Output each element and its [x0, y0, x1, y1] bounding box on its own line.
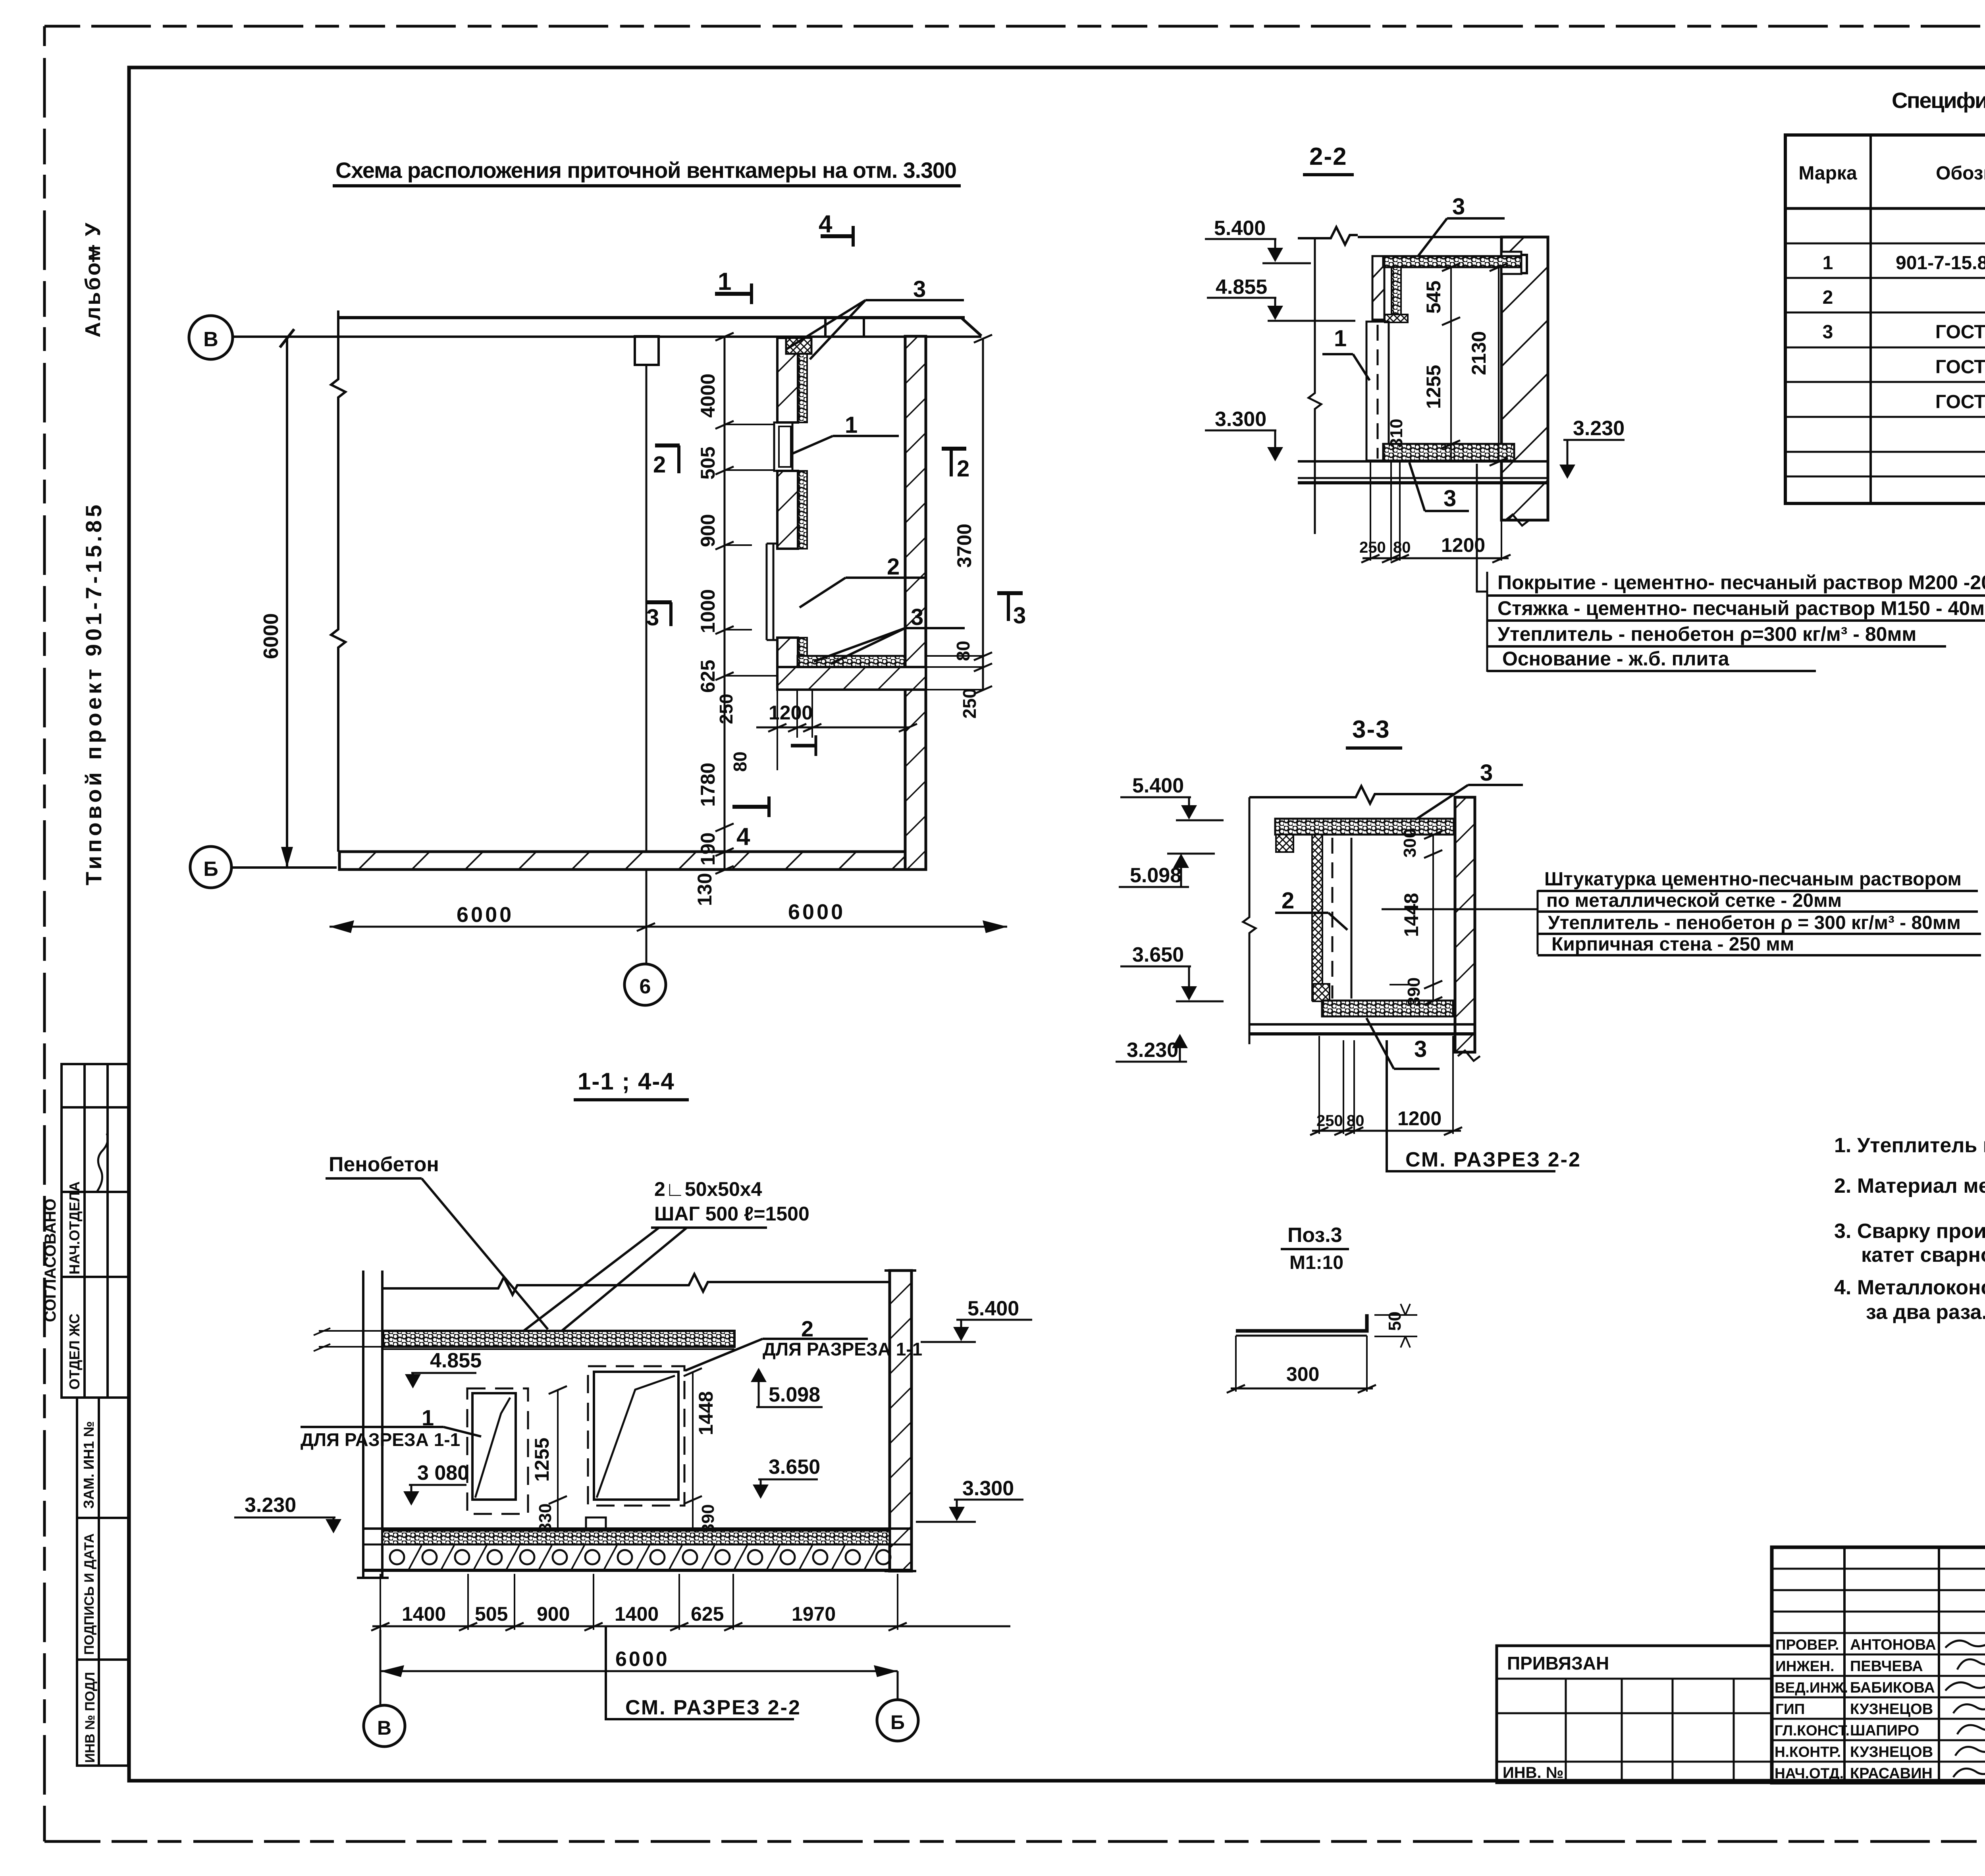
svg-text:3: 3	[1414, 1036, 1427, 1062]
svg-text:505: 505	[697, 447, 719, 480]
svg-text:ГИП: ГИП	[1775, 1701, 1805, 1717]
role labels	[1775, 1637, 1850, 1782]
see section 2-2 reference	[1387, 1040, 1581, 1171]
svg-text:1: 1	[845, 412, 858, 438]
opening 2 door	[588, 1366, 684, 1506]
chamber bottom foam band	[1383, 444, 1514, 461]
bottom 6000+6000 dim	[330, 900, 1007, 933]
rotated signature squiggle	[97, 1134, 108, 1191]
left 6000 dim line	[260, 329, 294, 868]
svg-text:СМ. РАЗРЕЗ 2-2: СМ. РАЗРЕЗ 2-2	[1405, 1148, 1581, 1171]
svg-text:ПЕВЧЕВА: ПЕВЧЕВА	[1850, 1658, 1923, 1675]
svg-text:901-7-15.85 -КЖИ.МН1: 901-7-15.85 -КЖИ.МН1	[1896, 253, 1985, 274]
svg-text:2∟50х50х4: 2∟50х50х4	[654, 1178, 762, 1200]
bottom dims 250/80/1200	[1310, 1036, 1462, 1135]
leader to plaster schedule	[1382, 908, 1538, 910]
section mark 3 right	[997, 593, 1026, 629]
svg-text:310: 310	[1387, 419, 1406, 448]
svg-text:Альбом У: Альбом У	[81, 221, 105, 337]
angle column left	[1372, 256, 1384, 320]
left wall	[357, 1271, 389, 1578]
section mark 4 top	[819, 210, 854, 247]
bottom left angle piece	[1313, 984, 1330, 1001]
dim 1448 / 390	[684, 1368, 718, 1537]
svg-text:СОГЛАСОВАНО: СОГЛАСОВАНО	[42, 1199, 59, 1322]
overbar of V	[93, 245, 94, 262]
svg-text:М1:10: М1:10	[1289, 1252, 1343, 1273]
svg-text:1-1 ; 4-4: 1-1 ; 4-4	[578, 1068, 675, 1095]
svg-text:3-3: 3-3	[1352, 716, 1390, 743]
svg-text:3.300: 3.300	[962, 1477, 1014, 1500]
section mark 1 bottom	[791, 735, 817, 756]
embedded top plate MN1	[786, 338, 811, 354]
svg-text:2: 2	[957, 456, 969, 482]
right wall hatched	[905, 336, 926, 870]
callout 1	[1322, 326, 1370, 380]
svg-text:3: 3	[1480, 760, 1493, 786]
svg-text:250: 250	[959, 688, 980, 719]
svg-text:ШАПИРО: ШАПИРО	[1850, 1722, 1919, 1739]
svg-text:ИНЖЕН.: ИНЖЕН.	[1775, 1658, 1834, 1674]
svg-text:ГОСТ 5336-80: ГОСТ 5336-80	[1935, 357, 1985, 378]
svg-text:ДЛЯ РАЗРЕЗА 1-1: ДЛЯ РАЗРЕЗА 1-1	[301, 1429, 460, 1450]
svg-text:300: 300	[1286, 1363, 1319, 1385]
svg-text:3: 3	[1443, 486, 1456, 511]
level 4.855	[1207, 276, 1355, 321]
row 2 MN2	[1823, 287, 1985, 308]
level 3.230	[1116, 1034, 1188, 1062]
callout 3 bottom	[1366, 1018, 1440, 1069]
bottom dim chain	[371, 1574, 1010, 1631]
callout 3 top	[1418, 194, 1505, 256]
svg-text:2. Материал металлоконструкци: 2. Материал металлоконструкций - сталь В…	[1834, 1174, 1985, 1197]
title underline	[333, 184, 961, 187]
wall cut line left	[331, 310, 345, 852]
svg-text:4: 4	[819, 210, 833, 238]
svg-text:6000: 6000	[260, 613, 283, 659]
svg-text:ГЛ.КОНСТ.: ГЛ.КОНСТ.	[1775, 1722, 1850, 1739]
callout 3 bottom	[1409, 463, 1469, 511]
stub on top wall	[635, 336, 659, 365]
svg-text:1448: 1448	[1400, 893, 1422, 937]
svg-text:Схема расположения приточной в: Схема расположения приточной венткамеры …	[335, 158, 957, 183]
svg-text:Марка: Марка	[1798, 163, 1857, 184]
foam wall pos1 with dashed frame	[1366, 322, 1389, 461]
svg-text:4000: 4000	[697, 374, 719, 418]
vertical dim chain	[694, 333, 777, 906]
section mark 2 left	[653, 445, 680, 478]
level 3.080	[403, 1461, 469, 1506]
floor foam screed band	[382, 1531, 890, 1544]
level 5.400 right	[921, 1297, 1032, 1342]
svg-text:Кирпичная стена - 250 мм: Кирпичная стена - 250 мм	[1551, 934, 1794, 955]
chamber top foam band	[1383, 256, 1521, 267]
right dim line 3700/80/250	[926, 335, 992, 719]
level 5.400	[1120, 774, 1224, 820]
svg-text:КУЗНЕЦОВ: КУЗНЕЦОВ	[1850, 1744, 1933, 1760]
svg-text:1448: 1448	[695, 1391, 717, 1435]
dim 6000	[380, 1648, 898, 1677]
see section 2-2 reference	[606, 1626, 801, 1719]
svg-text:Поз.3: Поз.3	[1287, 1224, 1342, 1247]
callout 2	[1275, 888, 1347, 930]
svg-text:ОТДЕЛ ЖС: ОТДЕЛ ЖС	[66, 1313, 83, 1390]
grid circle V	[189, 316, 233, 359]
svg-text:1255: 1255	[1422, 365, 1445, 409]
svg-text:1: 1	[718, 268, 731, 295]
small box on floor	[586, 1517, 606, 1529]
svg-text:ПРОВЕР.: ПРОВЕР.	[1775, 1637, 1839, 1653]
dim 1255 / 330	[531, 1386, 567, 1537]
chamber bottom dims 250/80/1200	[716, 690, 917, 772]
table outer box	[1785, 135, 1985, 503]
header row line	[1785, 207, 1985, 210]
callout 3 top	[786, 276, 964, 359]
svg-text:80: 80	[953, 641, 973, 661]
svg-text:ГОСТ 5781-82: ГОСТ 5781-82	[1935, 322, 1985, 343]
top wall band	[338, 318, 981, 337]
svg-text:ИНВ. №: ИНВ. №	[1503, 1764, 1563, 1782]
svg-text:1: 1	[1334, 326, 1347, 351]
svg-text:Обозначение: Обозначение	[1936, 163, 1985, 184]
svg-text:ЗАМ. ИН1 №: ЗАМ. ИН1 №	[81, 1421, 97, 1509]
callout 2 with text	[685, 1316, 922, 1371]
svg-text:катет сварного шва - 4: катет сварного шва - 4мм.	[1861, 1244, 1985, 1267]
svg-text:2: 2	[653, 452, 666, 478]
svg-text:БАБИКОВА: БАБИКОВА	[1850, 1679, 1935, 1696]
pos2 frame in lower opening	[767, 544, 777, 640]
svg-text:3: 3	[646, 605, 659, 630]
dim 300	[1227, 1336, 1376, 1393]
svg-text:ПРИВЯЗАН: ПРИВЯЗАН	[1507, 1653, 1609, 1674]
callout 1	[793, 412, 899, 453]
svg-text:Н.КОНТР.: Н.КОНТР.	[1775, 1744, 1841, 1760]
grid circle B	[190, 846, 231, 888]
wall band below chamber	[777, 667, 926, 690]
left cut line with break	[1243, 797, 1256, 1044]
section mark 2 right	[942, 449, 969, 482]
svg-text:5.098: 5.098	[769, 1383, 820, 1406]
callout 2	[800, 554, 925, 607]
top foam band	[314, 1328, 734, 1351]
svg-text:3: 3	[1823, 322, 1833, 343]
box upper	[62, 1064, 128, 1398]
level 3.230 left	[234, 1494, 341, 1533]
svg-text:2130: 2130	[1468, 331, 1490, 375]
svg-text:НАЧ.ОТДЕЛА: НАЧ.ОТДЕЛА	[66, 1181, 83, 1274]
stamp name rows	[1772, 1654, 1985, 1762]
left attached table	[1497, 1646, 1772, 1783]
header texts	[1798, 161, 1985, 184]
svg-text:КУЗНЕЦОВ: КУЗНЕЦОВ	[1850, 1701, 1933, 1718]
svg-text:В: В	[377, 1717, 391, 1739]
svg-text:1400: 1400	[402, 1603, 446, 1625]
ceiling line with breaks	[382, 1274, 890, 1295]
axis line 6 vertical	[646, 366, 648, 964]
svg-text:6000: 6000	[457, 903, 514, 927]
svg-text:Покрытие - цементно- песчаный: Покрытие - цементно- песчаный раствор М2…	[1497, 571, 1985, 594]
level 3.300 right	[916, 1477, 1023, 1522]
svg-text:3700: 3700	[953, 524, 975, 568]
svg-text:Основание - ж.б. плита: Основание - ж.б. плита	[1502, 648, 1730, 670]
grid circle 6	[624, 964, 666, 1005]
stamp outer box	[1772, 1547, 1985, 1783]
svg-text:250: 250	[1359, 539, 1386, 556]
svg-text:ДЛЯ РАЗРЕЗА 1-1: ДЛЯ РАЗРЕЗА 1-1	[763, 1339, 922, 1359]
right wall hatched	[1455, 797, 1480, 1061]
svg-text:ВЕД.ИНЖ.: ВЕД.ИНЖ.	[1775, 1679, 1848, 1696]
svg-text:3.230: 3.230	[245, 1494, 296, 1517]
right wall hatched	[1501, 237, 1548, 526]
svg-text:Утеплитель - пенобетон ρ=300 к: Утеплитель - пенобетон ρ=300 кг/м³ - 80м…	[1497, 623, 1916, 645]
svg-text:1: 1	[1823, 253, 1833, 274]
svg-text:ГОСТ 8509-72: ГОСТ 8509-72	[1935, 391, 1985, 413]
bottom dims 250/80/1200	[1359, 461, 1511, 563]
plaster schedule text block	[1538, 869, 1981, 955]
svg-text:2: 2	[801, 1316, 813, 1341]
right wall hatched	[885, 1271, 916, 1571]
svg-text:ШАГ 500 ℓ=1500: ШАГ 500 ℓ=1500	[654, 1203, 809, 1225]
hollow core slab with circles	[363, 1544, 912, 1570]
svg-text:625: 625	[697, 660, 719, 693]
svg-text:2: 2	[887, 554, 900, 580]
partition insulation foam strip segments	[798, 338, 807, 422]
svg-text:Б: Б	[203, 858, 218, 881]
callout 3 top	[1416, 760, 1523, 819]
callout 1 with text	[301, 1405, 481, 1450]
svg-text:1200: 1200	[769, 702, 813, 724]
row lines	[1785, 243, 1985, 476]
svg-text:Штукатурка цементно-песчаным: Штукатурка цементно-песчаным раствором	[1544, 869, 1962, 890]
svg-text:3 080: 3 080	[417, 1461, 469, 1485]
T element bottom cap	[1385, 314, 1408, 322]
svg-text:1000: 1000	[697, 589, 719, 633]
bottom foam band	[1322, 1001, 1453, 1016]
svg-text:80: 80	[730, 752, 750, 772]
level 5.400	[1205, 217, 1311, 263]
row 4 GOST 5336	[1935, 357, 1985, 378]
floor lines	[1298, 461, 1548, 483]
svg-text:КРАСАВИН: КРАСАВИН	[1850, 1765, 1933, 1782]
svg-text:Утеплитель - пенобетон ρ =: Утеплитель - пенобетон ρ = 300 кг/м³ - 8…	[1548, 912, 1961, 933]
svg-text:1200: 1200	[1441, 534, 1485, 556]
axis line V	[233, 335, 981, 338]
svg-text:за два раза.: за два раза.	[1866, 1301, 1985, 1324]
svg-text:130: 130	[694, 873, 716, 906]
svg-text:6000: 6000	[788, 900, 845, 924]
floor lines	[1249, 1024, 1474, 1034]
callout 3 bottom	[814, 604, 965, 664]
row 1 MN1	[1823, 253, 1985, 274]
svg-text:В: В	[203, 328, 218, 351]
svg-text:4: 4	[736, 823, 750, 850]
floor: top line	[363, 1527, 912, 1530]
level 3.650	[1120, 943, 1224, 1001]
opening 1 door	[467, 1388, 528, 1514]
svg-text:4. Металлоконструкции окраси: 4. Металлоконструкции окрасить масляной …	[1834, 1276, 1985, 1299]
svg-text:ИНВ № ПОДЛ: ИНВ № ПОДЛ	[83, 1672, 98, 1763]
level 5.098	[1119, 854, 1215, 887]
svg-text:2: 2	[1823, 287, 1833, 308]
approval side table (rotated)	[42, 1064, 128, 1766]
svg-text:900: 900	[537, 1603, 570, 1625]
svg-text:Пенобетон: Пенобетон	[329, 1153, 439, 1176]
grid circle B bottom	[877, 1671, 918, 1741]
svg-text:2-2: 2-2	[1309, 143, 1347, 170]
svg-text:5.400: 5.400	[967, 1297, 1019, 1320]
surnames	[1850, 1637, 1936, 1782]
svg-text:1255: 1255	[531, 1438, 553, 1482]
anchor angles label	[524, 1178, 809, 1331]
svg-text:2: 2	[1282, 888, 1294, 914]
svg-text:6000: 6000	[615, 1648, 669, 1671]
svg-text:3: 3	[1452, 194, 1465, 220]
svg-text:1200: 1200	[1397, 1107, 1442, 1130]
angle profile	[1236, 1314, 1367, 1336]
axis line B	[231, 866, 337, 869]
svg-text:Типовой проект 901-7-15.85: Типовой проект 901-7-15.85	[81, 501, 106, 885]
svg-text:4.855: 4.855	[1216, 276, 1267, 299]
svg-text:3: 3	[1013, 603, 1026, 629]
svg-text:545: 545	[1422, 281, 1445, 314]
svg-text:50: 50	[1385, 1311, 1405, 1331]
svg-text:НАЧ.ОТД.: НАЧ.ОТД.	[1775, 1765, 1844, 1782]
svg-text:6: 6	[640, 975, 651, 998]
svg-text:3.650: 3.650	[769, 1456, 820, 1479]
level 3.650	[753, 1456, 820, 1499]
svg-text:3.230: 3.230	[1573, 417, 1625, 440]
interior dim chain 545/1255/310	[1387, 263, 1460, 461]
svg-text:3: 3	[911, 604, 923, 630]
signature squiggles	[1945, 1638, 1985, 1779]
chamber partition brick strip segments	[777, 338, 798, 422]
ceiling line with break	[1249, 786, 1455, 804]
svg-text:625: 625	[691, 1603, 724, 1625]
svg-text:Стяжка - цементно- песчаный: Стяжка - цементно- песчаный раствор М150…	[1497, 597, 1985, 619]
svg-text:Б: Б	[890, 1711, 905, 1733]
svg-text:4.855: 4.855	[430, 1349, 482, 1372]
svg-text:80: 80	[1347, 1112, 1364, 1130]
column lines	[1871, 135, 1985, 503]
leader to finish schedule	[1477, 464, 1487, 592]
svg-text:3. Сварку производить элек: 3. Сварку производить электродами Э42 ( …	[1834, 1220, 1985, 1243]
bottom wall band hatched	[339, 852, 926, 870]
svg-text:3.300: 3.300	[1215, 408, 1266, 431]
left foam strip with dashed frame pos2	[1312, 835, 1351, 1001]
svg-text:1. Утеплитель крепить на ан: 1. Утеплитель крепить на анкерах поз.3	[1834, 1134, 1985, 1157]
finish schedule text block	[1487, 571, 1985, 672]
level 3.230	[1559, 417, 1625, 479]
svg-text:1400: 1400	[615, 1603, 659, 1625]
row 3 GOST 5781	[1823, 322, 1985, 343]
chamber bottom foam band	[798, 656, 905, 667]
svg-text:250: 250	[716, 694, 736, 724]
left cut line with break	[1309, 238, 1321, 534]
svg-text:5.400: 5.400	[1214, 217, 1266, 240]
svg-text:ПОДПИСЬ И ДАТА: ПОДПИСЬ И ДАТА	[82, 1533, 97, 1655]
svg-text:250: 250	[1316, 1112, 1343, 1130]
svg-text:по металлической сетке - 20: по металлической сетке - 20мм	[1546, 890, 1842, 911]
svg-text:АНТОНОВА: АНТОНОВА	[1850, 1637, 1936, 1653]
svg-text:505: 505	[475, 1603, 508, 1625]
section mark 1 top	[715, 268, 753, 304]
section mark 3 left	[646, 602, 672, 630]
dim 300	[1400, 829, 1442, 1005]
row 5 GOST 8509	[1935, 391, 1985, 413]
svg-text:1780: 1780	[697, 763, 719, 807]
ceiling line with break	[1298, 227, 1501, 245]
section mark 4 bottom	[732, 796, 770, 850]
interior dim 2130	[1468, 263, 1508, 466]
grid circle V bottom	[364, 1630, 405, 1747]
stamp vertical lines	[1844, 1547, 1985, 1783]
dim 50	[1374, 1304, 1417, 1348]
svg-text:3.230: 3.230	[1127, 1039, 1178, 1062]
dim 390	[1389, 978, 1442, 1006]
svg-text:5.400: 5.400	[1132, 774, 1184, 797]
svg-text:900: 900	[697, 514, 719, 547]
top left angle piece	[1276, 835, 1293, 852]
top foam band	[1275, 819, 1454, 835]
T element foam strip	[1391, 267, 1401, 318]
svg-text:80: 80	[1393, 539, 1411, 556]
stamp top narrow rows	[1772, 1569, 1985, 1633]
svg-text:1970: 1970	[792, 1603, 836, 1625]
level 5.098	[751, 1368, 823, 1407]
door element pos1	[774, 422, 792, 471]
svg-text:190: 190	[697, 833, 719, 866]
svg-text:СМ. РАЗРЕЗ 2-2: СМ. РАЗРЕЗ 2-2	[625, 1696, 801, 1719]
svg-text:390: 390	[1404, 978, 1424, 1006]
svg-text:300: 300	[1400, 829, 1420, 858]
level 3.300	[1205, 408, 1283, 461]
svg-text:Спецификация приточной вентк: Спецификация приточной венткамеры	[1892, 88, 1985, 113]
svg-text:3.650: 3.650	[1132, 943, 1184, 966]
svg-text:3: 3	[913, 276, 926, 302]
box lower	[77, 1398, 128, 1766]
level 4.855	[405, 1349, 482, 1388]
foam concrete label	[326, 1153, 548, 1329]
